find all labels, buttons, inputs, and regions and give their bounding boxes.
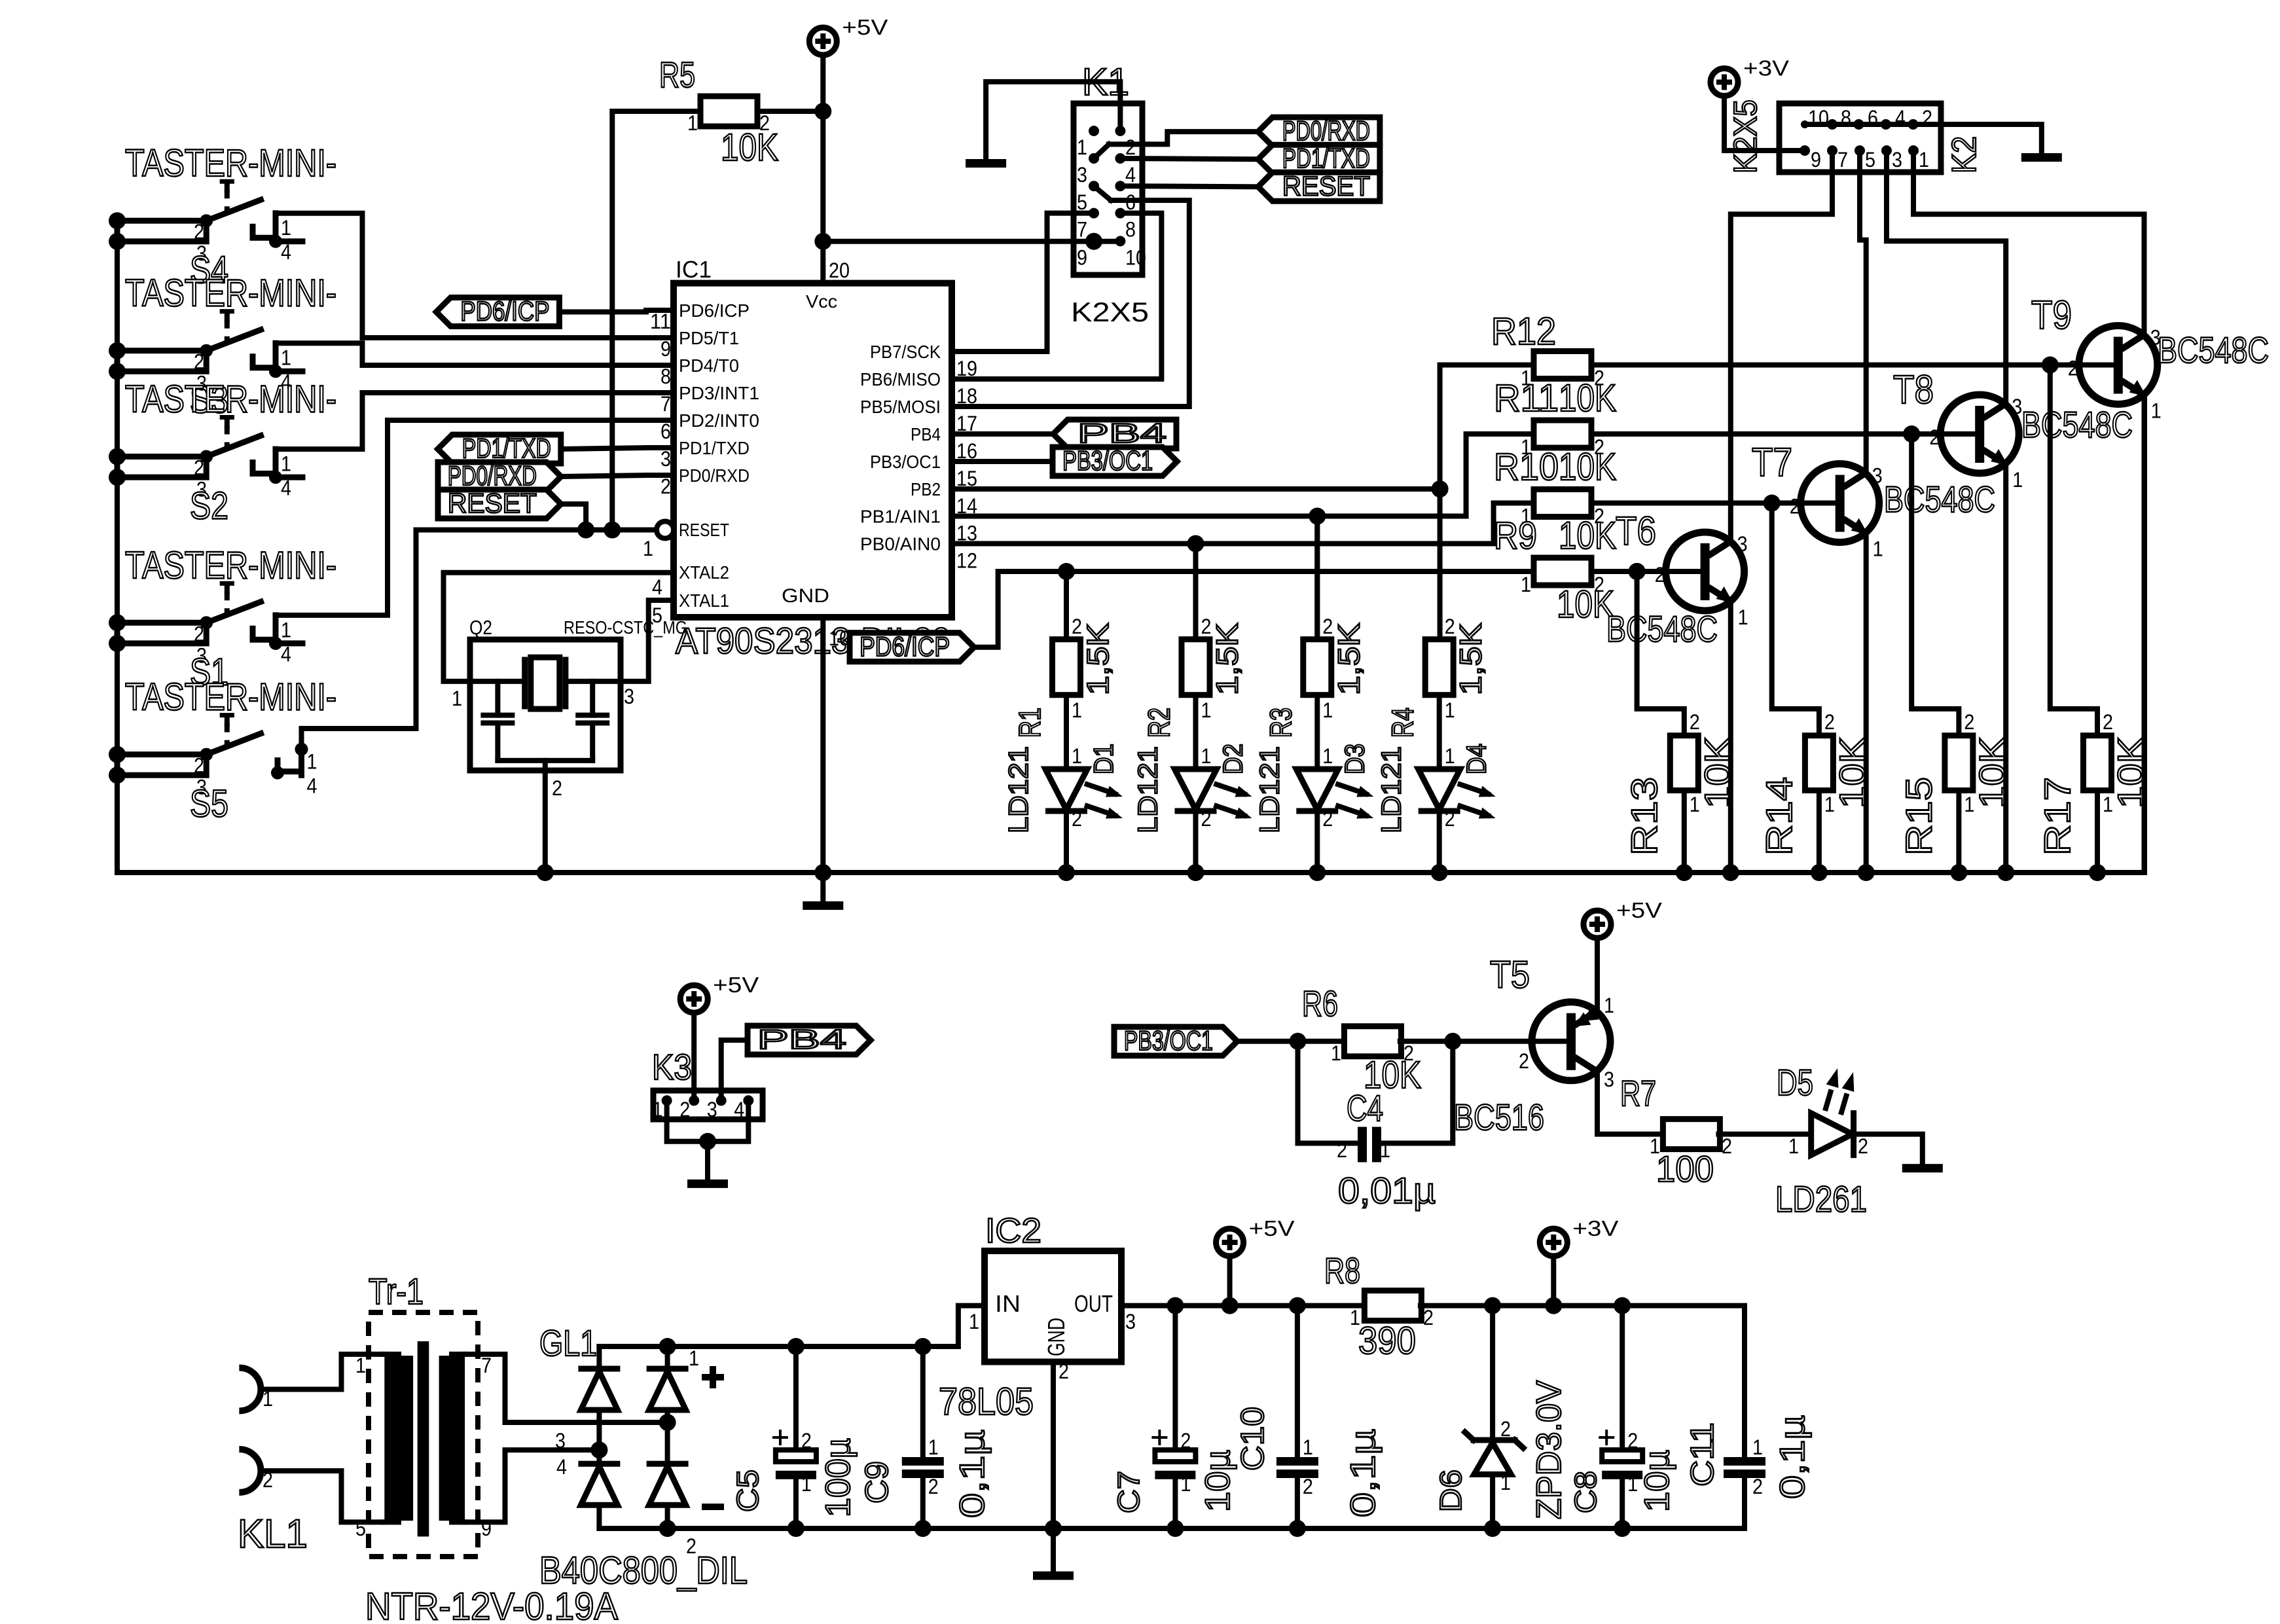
junction [200,748,213,761]
junction [109,469,126,486]
svg-text:1: 1 [1788,1134,1799,1158]
svg-text:1: 1 [1919,148,1929,171]
wire R7 to D5 [1718,1132,1811,1137]
svg-text:1: 1 [1303,1435,1313,1459]
resistor R13 10K [1670,736,1698,791]
wire base pulldown to R13 [1637,571,1684,736]
wire T5 emitter to +5V [1595,938,1600,1011]
wire [253,226,276,238]
svg-text:1: 1 [687,111,698,135]
svg-text:2: 2 [1059,1360,1069,1383]
svg-text:6: 6 [1868,106,1878,130]
supply +3V (out) [1540,1229,1567,1256]
svg-text:PD3/INT1: PD3/INT1 [679,383,759,403]
svg-text:R17: R17 [2036,777,2078,856]
wire S5 to RESET net [302,530,416,749]
svg-text:10µ: 10µ [1638,1450,1676,1512]
svg-text:GND: GND [782,585,829,607]
wire +5V to K1 pin9/10 [823,239,1120,244]
svg-text:2: 2 [686,1534,697,1558]
svg-text:2: 2 [194,350,204,374]
junction [914,1338,932,1355]
wire C10 top [1295,1306,1300,1457]
svg-text:D1: D1 [1088,744,1119,774]
wire to R2 [1193,544,1199,640]
junction [1484,1297,1501,1314]
zener cathode bar [1474,1437,1515,1443]
junction R6/C4 right [1444,1033,1461,1050]
wire [253,357,276,368]
minus mark [702,1504,724,1510]
flag PB3/OC1 (pin 15) [1053,447,1177,476]
wire R15 to ground bus [1956,791,1961,873]
svg-text:TASTER-MINI-: TASTER-MINI- [125,544,336,586]
junction [1811,864,1828,881]
svg-text:2: 2 [194,220,204,244]
svg-text:R13: R13 [1623,777,1665,856]
junction [1309,864,1326,881]
svg-text:1: 1 [1201,744,1212,768]
svg-text:PB0/AIN0: PB0/AIN0 [860,534,941,554]
pin 7 PD3/INT1 stub [646,390,674,395]
capacitor C9 (ceramic) [902,1457,944,1466]
svg-text:K2: K2 [1945,136,1983,173]
wire K2 pin2 row to ground [1941,124,2042,153]
wire K1 pin3 stub [1094,144,1109,158]
svg-text:2: 2 [1423,1306,1434,1329]
wire C7 top [1172,1306,1178,1451]
transistor T6 BC548C [1666,532,1745,611]
wire flag to pin 11 [559,310,646,315]
wire D2 to ground bus [1193,811,1199,873]
svg-text:XTAL2: XTAL2 [679,562,729,583]
svg-text:B40C800_DIL: B40C800_DIL [539,1549,748,1592]
svg-text:LD261: LD261 [1775,1178,1867,1219]
svg-text:TASTER-MINI-: TASTER-MINI- [125,378,336,421]
svg-text:K2X5: K2X5 [1728,99,1764,173]
svg-text:PB3/OC1: PB3/OC1 [1062,445,1153,476]
svg-text:K2X5: K2X5 [1071,297,1149,327]
connector K3 [653,1091,763,1119]
svg-text:PD1/TXD: PD1/TXD [462,433,551,463]
svg-text:7: 7 [660,392,671,416]
svg-text:10K: 10K [1559,377,1616,420]
wire C5 top [793,1346,799,1450]
svg-text:PB4: PB4 [1077,418,1167,448]
svg-text:3: 3 [624,685,634,708]
pin 17 PB5/MOSI stub [952,404,979,409]
svg-text:3: 3 [2150,326,2161,350]
capacitor C7 (electrolytic) [1155,1450,1195,1462]
wire S2 to PD3/INT1 pin 7 [276,393,646,449]
wire R17 to ground bus [2095,791,2100,873]
ground (K2) [2021,153,2062,162]
junction [1676,864,1693,881]
svg-text:2: 2 [552,776,562,800]
wire S1 to PD2/INT0 pin 6 [276,420,646,615]
svg-text:9: 9 [660,337,671,361]
flag RESET [438,490,561,518]
transistor T8 BC548C [1940,395,2019,473]
junction [109,635,126,652]
svg-text:0,01µ: 0,01µ [1338,1170,1436,1211]
flag PB4 (pin 16) [1053,420,1176,448]
wire base T8 [1591,431,1975,437]
junction [109,614,126,631]
svg-text:R7: R7 [1620,1074,1656,1113]
junction [1289,1520,1306,1537]
svg-text:D4: D4 [1461,744,1492,774]
svg-text:1: 1 [281,452,291,476]
svg-text:R1: R1 [1013,708,1047,738]
svg-text:C4: C4 [1347,1087,1383,1128]
cap plate [483,713,512,718]
svg-text:C7: C7 [1112,1471,1146,1513]
wire C7 bottom [1172,1479,1178,1528]
wire [596,1346,602,1371]
svg-text:2: 2 [194,754,204,778]
svg-text:1: 1 [969,1310,979,1333]
junction [1431,864,1448,881]
svg-text:7: 7 [1077,218,1087,242]
resistor R6 10K [1345,1026,1402,1056]
svg-text:S5: S5 [190,783,228,825]
svg-text:R10: R10 [1494,446,1559,488]
wire PB0 pin12 to R10 [952,503,1536,544]
junction GL1 + [659,1338,676,1355]
svg-text:R6: R6 [1302,984,1338,1024]
svg-text:2: 2 [1627,1429,1638,1453]
svg-text:BC516: BC516 [1454,1096,1544,1138]
wire K1 pin7 to PB7/SCK pin 19 [952,213,1094,352]
svg-text:2: 2 [660,475,671,498]
wire [665,1506,670,1529]
svg-text:2: 2 [1824,710,1835,734]
connector K1 K2X5 (ISP) [1074,103,1142,275]
capacitor C10 (ceramic) [1276,1457,1318,1466]
svg-text:PD5/T1: PD5/T1 [679,328,739,348]
svg-text:2: 2 [679,1098,690,1121]
wire R1 to D1 [1064,695,1069,769]
svg-text:0,1µ: 0,1µ [953,1430,992,1518]
junction [1167,1297,1184,1314]
junction PB0 to R2 [1187,535,1204,552]
svg-text:1: 1 [281,618,291,641]
svg-text:10K: 10K [1559,514,1616,557]
svg-text:1: 1 [1445,744,1455,768]
svg-text:1: 1 [1322,698,1333,722]
LED D5 LD261 [1811,1113,1853,1155]
junction GL1 AC (4) [590,1441,607,1458]
svg-text:1: 1 [2012,468,2023,492]
svg-text:+3V: +3V [1572,1217,1619,1241]
svg-text:1: 1 [1873,537,1883,561]
wire K2 pin7 to T6 collector [1731,151,1832,542]
svg-text:1: 1 [1072,698,1082,722]
svg-text:1: 1 [452,687,462,710]
wire PB0 down to R2 [1193,544,1199,640]
svg-text:2: 2 [1790,495,1800,518]
wire R13 to ground bus [1682,791,1687,873]
transformer Tr-1 NTR-12V-0.19A [369,1312,478,1557]
wire base pulldown to R15 [1911,434,1959,736]
pin 6 PD2/INT0 stub [646,418,674,423]
svg-text:1: 1 [801,1472,812,1496]
svg-text:2: 2 [1322,807,1333,831]
junction [1484,1520,1501,1537]
supply +5V (top) [809,27,837,55]
svg-text:1: 1 [1627,1472,1638,1496]
svg-text:R2: R2 [1142,708,1176,738]
junction [200,214,213,227]
svg-text:D5: D5 [1777,1062,1813,1103]
svg-text:TASTER-MINI-: TASTER-MINI- [125,142,336,185]
svg-text:4: 4 [281,642,291,666]
wire PB4 flag to K3 pin 3 [721,1040,748,1100]
svg-text:2: 2 [1500,1417,1511,1441]
supply +3V (K2) [1710,69,1738,96]
wire T5 collector to R7 [1597,1072,1663,1134]
svg-text:1: 1 [1604,994,1614,1017]
svg-text:2: 2 [2068,357,2078,380]
junction [109,342,126,359]
junction [1950,864,1967,881]
svg-text:2: 2 [801,1429,812,1453]
svg-text:R4: R4 [1386,708,1420,738]
svg-text:2: 2 [1303,1475,1313,1498]
wire R5 pin1 to RESET net [612,111,700,530]
junction [269,637,282,650]
junction [295,743,308,756]
flag PB3/OC1 (T5 input) [1114,1027,1237,1056]
svg-text:1: 1 [281,216,291,240]
svg-text:T5: T5 [1490,954,1530,996]
wire K2 pin3 to T8 collector [1887,151,2006,405]
IC IC1 AT90S2313-DIL20 [674,283,952,617]
svg-text:4: 4 [307,774,317,798]
resistor R14 10K [1805,736,1833,791]
junction Q2 ground [537,864,554,881]
svg-text:3: 3 [660,447,671,471]
junction [109,448,126,465]
junction base branch T6 [1629,563,1646,580]
wire K1 pin6 to RESET flag [1120,186,1258,187]
svg-text:PB7/SCK: PB7/SCK [870,342,941,362]
resistor R7 100 [1663,1119,1720,1149]
wire K2 top row pins 10-2 [1805,122,1941,127]
svg-text:2: 2 [1337,1138,1347,1162]
svg-text:4: 4 [734,1098,744,1121]
junction base R14 [1764,495,1781,512]
wire K2 pin5 to T7 collector [1860,151,1866,474]
junction [814,233,831,250]
junction [1545,1297,1562,1314]
wire +3V rail to C11 [1420,1306,1745,1458]
svg-text:LD121: LD121 [1254,746,1284,833]
svg-text:1: 1 [355,1354,366,1377]
supply +5V (T5) [1583,911,1611,938]
svg-text:IC2: IC2 [985,1212,1041,1250]
wire PB1 down to R3 [1314,516,1320,640]
connector K2 K2X5 [1779,103,1941,172]
wire Q2 pin2 to ground bus [543,761,548,873]
junction [1045,1520,1062,1537]
LED D3 LD121 [1296,769,1338,810]
pin 15 PB3/OC1 stub [952,459,979,464]
pin 16 PB4 stub [952,431,979,437]
svg-text:10: 10 [1808,106,1829,130]
svg-text:10K: 10K [1559,446,1616,488]
wire [278,761,302,772]
junction [200,616,213,629]
svg-text:1: 1 [1077,135,1087,159]
wire PB2 down to R4 [1438,489,1443,640]
svg-text:1: 1 [1350,1306,1360,1329]
wire IC2 GND to 0V rail [1051,1362,1056,1529]
junction PB1 to R3 [1309,508,1326,525]
LED D4 LD121 [1419,769,1460,810]
wire C4 right [1381,1041,1453,1144]
svg-text:3: 3 [1737,532,1748,556]
svg-text:2: 2 [1690,710,1700,734]
svg-text:RESO-CSTC_MG: RESO-CSTC_MG [564,617,687,638]
wire to R1 [1064,571,1069,640]
junction GL1 AC (3) [659,1414,676,1431]
junction base R17 [2042,357,2059,374]
svg-text:1: 1 [1521,573,1531,596]
wire K1 pin5 stub [1094,186,1111,200]
svg-text:PD1/TXD: PD1/TXD [1282,143,1370,173]
junction [200,450,213,463]
junction [1858,864,1875,881]
junction [604,522,621,539]
wire XTAL1 to Q2 pin 3 [621,600,674,681]
wire [596,1506,602,1529]
svg-text:TASTER-MINI-: TASTER-MINI- [125,272,336,315]
svg-text:1: 1 [643,537,653,560]
junction +5V / R5 [814,103,831,120]
wire D5 to ground [1854,1134,1923,1164]
svg-text:Vcc: Vcc [806,291,837,312]
svg-text:R15: R15 [1898,777,1939,856]
svg-text:1: 1 [653,1098,663,1121]
junction [577,522,594,539]
wire +5V to IC1 Vcc pin 20 [820,55,825,283]
resistor R5 [700,96,757,126]
svg-text:1,5K: 1,5K [1081,623,1115,695]
svg-text:1: 1 [1201,698,1212,722]
svg-text:T9: T9 [2031,293,2072,338]
junction [787,1338,805,1355]
junction [1187,864,1204,881]
supply +5V (out) [1216,1229,1244,1256]
junction [269,235,282,248]
svg-text:1: 1 [928,1435,939,1459]
svg-text:PB3/OC1: PB3/OC1 [870,452,941,472]
svg-text:ZPD3.0V: ZPD3.0V [1530,1380,1568,1519]
pin 1 RESET (inverted) [657,522,674,539]
svg-text:R3: R3 [1263,708,1297,738]
svg-text:1: 1 [1752,1435,1763,1459]
wire base T7 [1591,501,1836,506]
ground (IC2) [1033,1572,1074,1580]
svg-text:2: 2 [2103,710,2113,734]
svg-text:PB3/OC1: PB3/OC1 [1124,1025,1213,1056]
svg-text:S2: S2 [190,485,228,528]
wire +5V stem [1227,1256,1233,1306]
svg-text:3: 3 [2012,395,2022,418]
resistor R10 10K [1534,490,1591,517]
junction [109,746,126,763]
wire base pulldown to R17 [2050,365,2097,736]
flag PD0/RXD (K1) [1258,117,1380,146]
svg-text:9: 9 [1077,245,1087,269]
junction base R15 [1903,425,1920,442]
wire flag to pin 3 [561,448,646,449]
junction [200,344,213,357]
svg-text:LD121: LD121 [1132,746,1163,833]
junction [109,212,126,229]
resistor R17 10K [2084,736,2112,791]
pin 18 PB6/MISO stub [952,376,979,382]
wire R3 to D3 [1314,695,1320,769]
wire D4 to ground bus [1437,811,1442,873]
svg-text:5: 5 [355,1517,366,1540]
svg-text:2: 2 [1722,1134,1732,1158]
svg-text:RESET: RESET [679,520,729,540]
wire [596,1410,602,1466]
wire K2 pin1 to T9 collector [1913,151,2144,336]
wire ground bus [117,221,2144,873]
svg-text:K3: K3 [652,1047,692,1087]
svg-text:1: 1 [1072,744,1082,768]
flag PD6/ICP (pin 11) [436,298,559,327]
pin 11 PD6/ICP stub [646,308,674,313]
ground (D5) [1902,1164,1943,1172]
svg-text:3: 3 [555,1429,566,1453]
resistor R11 10K [1534,420,1591,448]
junction K1 pin 9 [1085,233,1102,250]
wire T9 emitter to ground bus [2142,395,2147,873]
svg-text:PD0/RXD: PD0/RXD [448,460,537,491]
pin 12 PB0/AIN0 stub [952,541,979,547]
wire IC1 GND pin 10 [820,617,825,873]
svg-text:D3: D3 [1339,744,1369,774]
capacitor C8 (electrolytic) [1602,1450,1642,1462]
wire to ground symbol [820,873,825,901]
svg-text:2: 2 [1858,1134,1868,1158]
wire [665,1410,670,1466]
LED D1 LD121 [1045,769,1087,810]
svg-text:BC548C: BC548C [2158,329,2269,370]
junction [1167,1520,1184,1537]
svg-text:R9: R9 [1494,514,1537,557]
wire K1 pin3 to PD0/RXD flag [1109,132,1258,144]
junction [814,864,831,881]
svg-text:1: 1 [1322,744,1333,768]
flag RESET (K1) [1258,172,1380,201]
svg-text:1,5K: 1,5K [1454,623,1488,695]
connector KL1 pin 1 [239,1368,261,1411]
svg-text:+5V: +5V [842,16,888,40]
svg-text:1: 1 [1180,1472,1191,1496]
svg-text:1: 1 [1445,698,1455,722]
wire 0V rail [599,1526,1745,1531]
svg-text:3: 3 [1892,148,1902,171]
svg-text:1: 1 [1380,1138,1390,1162]
svg-text:D2: D2 [1218,744,1248,774]
core [418,1341,429,1536]
